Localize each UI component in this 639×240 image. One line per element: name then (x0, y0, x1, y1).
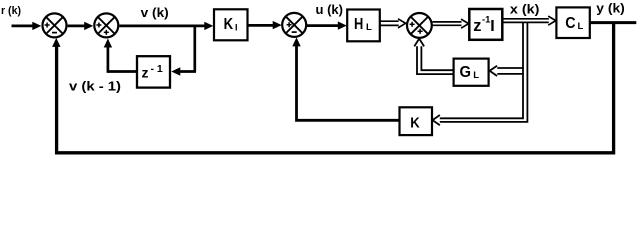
svg-text:x (k): x (k) (510, 2, 540, 17)
wire S1 to S2 (68, 22, 94, 30)
block HL (plant) (347, 10, 380, 42)
svg-text:H: H (354, 16, 363, 33)
vector wire x(k) tap down (to GL and K) (440, 22, 528, 122)
svg-text:L: L (473, 70, 479, 81)
vector wire S4 to z-1I (433, 19, 469, 28)
svg-text:y (k): y (k) (596, 0, 625, 15)
svg-text:L: L (578, 21, 584, 32)
block KI (integral gain) (214, 9, 248, 40)
svg-text:v (k - 1): v (k - 1) (69, 79, 121, 94)
open arrowhead into K (433, 115, 440, 125)
svg-text:r (k): r (k) (1, 5, 21, 17)
wire z-1 to S2 (104, 39, 137, 73)
vector wire z-1I to CL with x(k) tap (503, 16, 556, 25)
wire K to S3 (292, 37, 399, 120)
block K (state feedback gain) (400, 107, 433, 135)
vector wire HL to S4 (380, 19, 405, 28)
block z^-1 (delay) (137, 56, 170, 87)
vector wire GL to S4 (414, 39, 453, 75)
svg-text:- 1: - 1 (151, 63, 163, 75)
svg-text:C: C (565, 15, 576, 32)
svg-text:u (k): u (k) (316, 2, 344, 17)
wire y(k) output (590, 21, 636, 24)
summing junction S4 (407, 13, 432, 38)
wire outer feedback y(k) to S1 (52, 23, 614, 153)
wire KI to S3 (248, 21, 282, 29)
svg-text:K: K (224, 16, 234, 33)
wire tap v(k) down to z-1 (171, 25, 196, 76)
summing junction S2 (94, 13, 118, 37)
block GL (observer gain) (454, 59, 489, 86)
wire S3 to HL (307, 21, 347, 29)
block CL (output matrix) (556, 7, 589, 38)
svg-text:L: L (366, 22, 372, 33)
block z^-1 I (vector delay) (469, 9, 502, 40)
svg-text:I: I (235, 22, 238, 32)
svg-text:z: z (473, 16, 481, 35)
svg-text:K: K (410, 115, 420, 132)
wire S2 to KI with tap node (119, 22, 213, 30)
vector wire x(k) branch to GL (490, 66, 524, 76)
summing junction S3 (282, 13, 306, 37)
svg-text:z: z (142, 64, 149, 80)
svg-text:G: G (460, 64, 472, 81)
wire r(k) input (12, 22, 42, 30)
summing junction S1 (43, 13, 67, 37)
svg-text:I: I (490, 18, 494, 35)
svg-text:v (k): v (k) (141, 5, 169, 20)
